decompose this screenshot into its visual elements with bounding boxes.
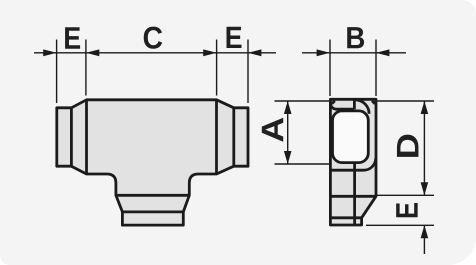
arrow at D bottom (pointing down)	[421, 182, 429, 195]
dimension line A	[287, 101, 289, 164]
front view tee outline	[57, 100, 248, 225]
front view body left edge	[85, 100, 88, 174]
side view branch ring line	[330, 216, 361, 219]
arrow at E1 left (pointing right)	[43, 49, 56, 56]
label E1	[65, 27, 80, 49]
arrow at B left (pointing right)	[317, 49, 330, 56]
extension line A top	[275, 100, 330, 102]
arrow at A top (pointing up)	[284, 101, 292, 114]
dimension line D	[423, 101, 425, 195]
front view branch shoulder line	[116, 194, 189, 197]
arrow at E1 right / C left (pointing left)	[86, 49, 99, 56]
label D (rotated)	[397, 135, 419, 157]
arrow at C right / E2 left (pointing right)	[203, 49, 216, 56]
side view pipe edge bottom segment	[353, 163, 356, 226]
arrow at A bottom (pointing down)	[284, 151, 292, 164]
extension line E3 bottom	[366, 224, 434, 226]
extension line C right / E2 left	[216, 40, 218, 96]
extension line B left	[329, 40, 331, 97]
side view bell bottom curve	[330, 158, 375, 170]
extension line E1 left	[56, 40, 58, 104]
front view branch ring line	[122, 210, 183, 213]
front view body right edge	[215, 100, 218, 174]
arrow at E2 right (pointing left)	[248, 49, 261, 56]
dimension line top-left (E,C,E)	[34, 52, 276, 54]
dimension line top-right (B)	[302, 52, 406, 54]
arrow at B right (pointing left)	[376, 49, 389, 56]
arrow at E3 bottom (pointing up)	[421, 225, 429, 238]
label C	[144, 27, 163, 49]
extension line E1 right / C left	[85, 40, 87, 96]
side view corner fillet mark left	[332, 101, 335, 104]
extension line A bottom	[275, 163, 330, 165]
label A (rotated)	[262, 118, 283, 142]
label E2	[227, 27, 242, 48]
label B	[347, 27, 364, 48]
label E3 (rotated)	[396, 203, 418, 217]
extension line B right	[375, 40, 377, 97]
side view bell top-right arc	[355, 100, 369, 114]
side view pipe edge top segment	[353, 99, 356, 109]
extension line E2 right	[247, 40, 249, 104]
side view corner fillet mark right	[372, 101, 375, 104]
extension line D bottom / E3 top	[373, 194, 435, 196]
side view outline	[330, 99, 376, 225]
front view left socket ring edge	[70, 108, 73, 166]
front view right socket ring edge	[232, 108, 235, 166]
extension line D top	[378, 100, 435, 102]
side view bell top flat with left fillet	[330, 103, 354, 109]
arrow at D top (pointing up)	[421, 101, 429, 114]
dimension line E3 tail	[423, 225, 425, 254]
side view socket opening	[333, 111, 369, 163]
side view branch shoulder line	[330, 195, 376, 198]
